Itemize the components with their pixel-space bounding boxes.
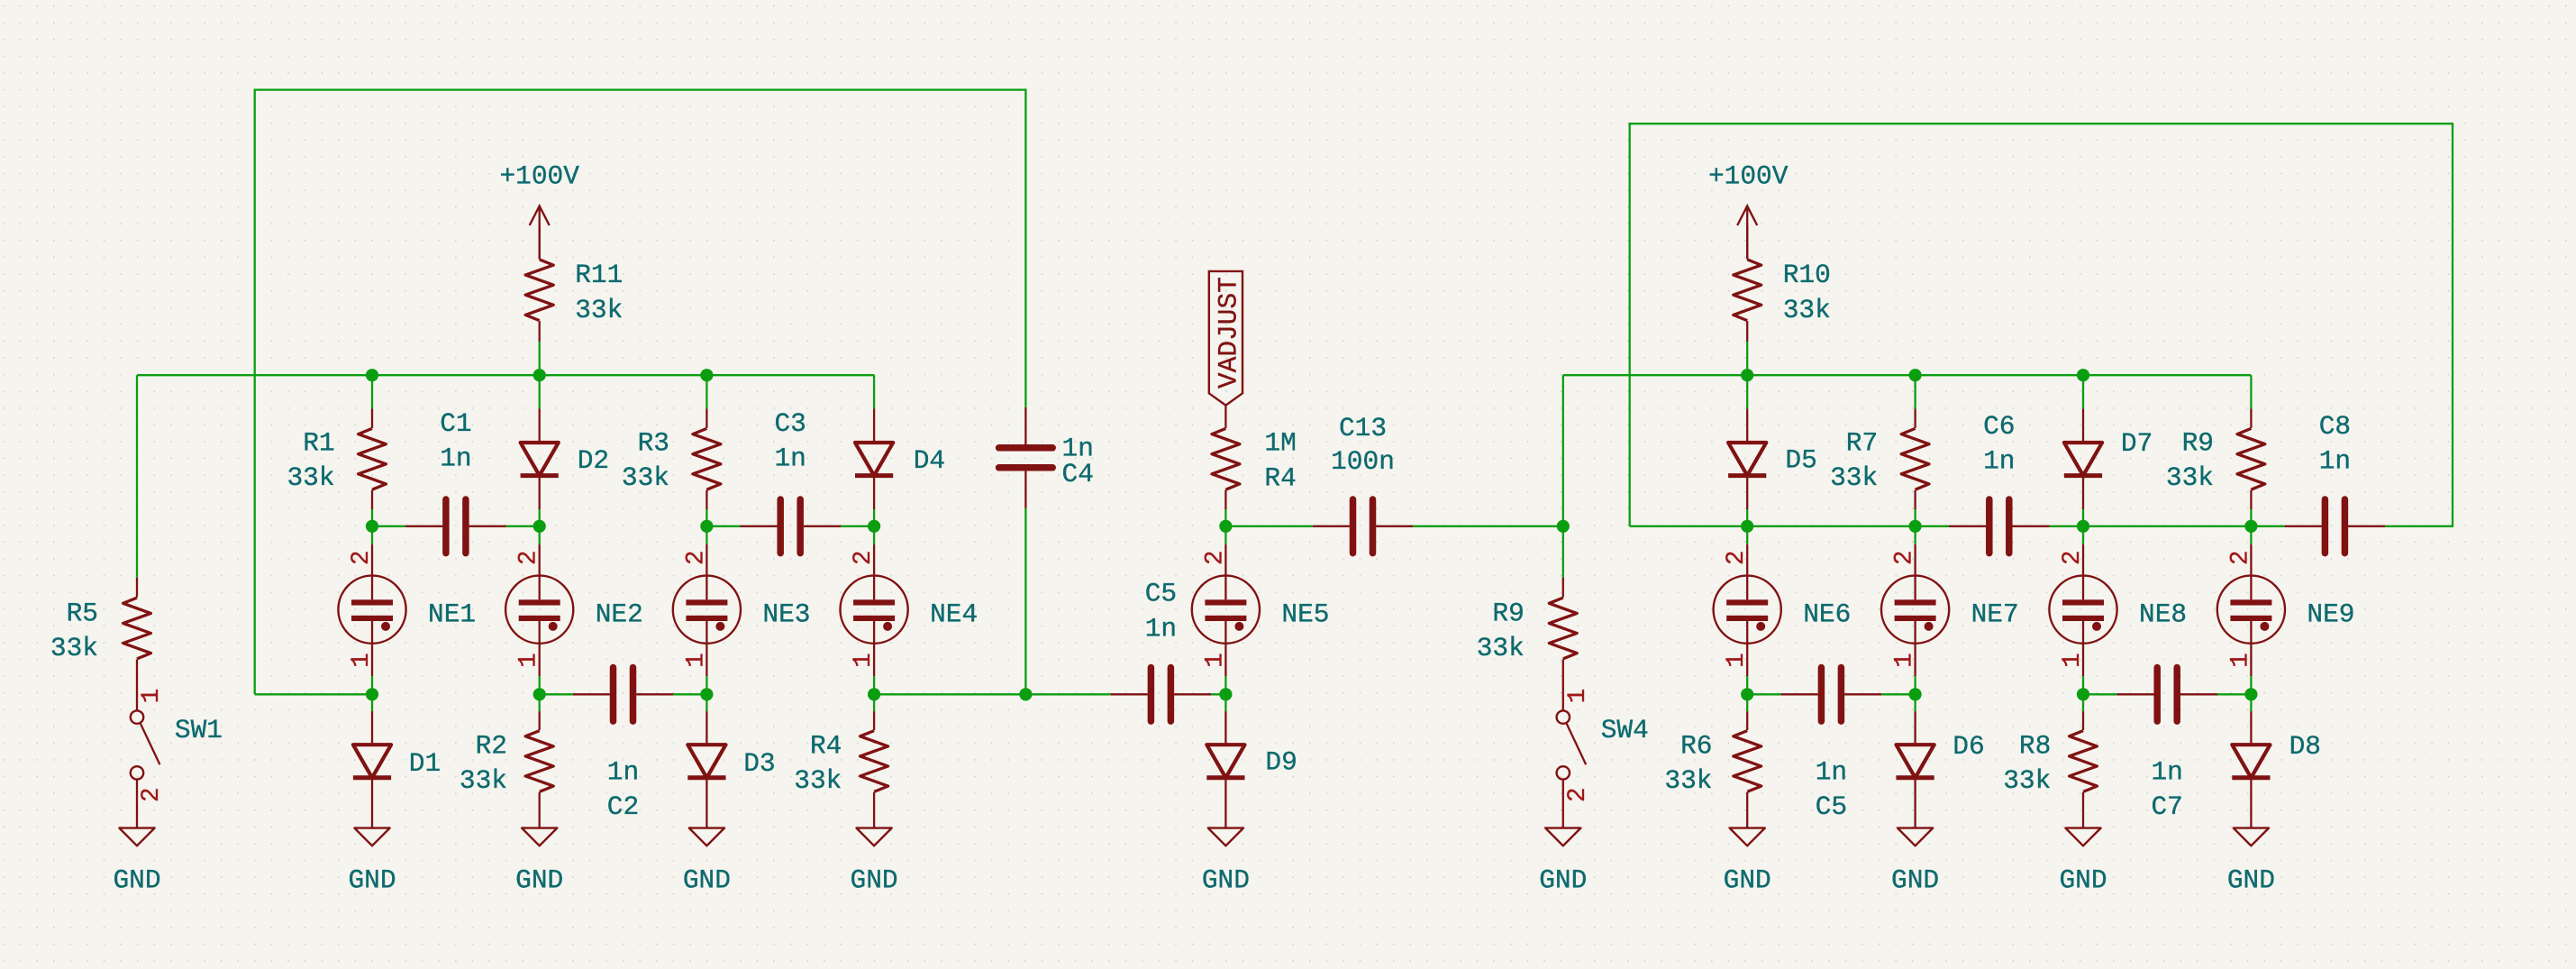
svg-text:R9: R9 [2182, 428, 2214, 459]
svg-text:+100V: +100V [1708, 161, 1789, 192]
wire bottom row NE6-C5b [1747, 693, 1780, 695]
svg-text:2: 2 [850, 550, 878, 565]
wire mid row NE5-C13 [1225, 526, 1312, 527]
diode D2 [521, 409, 610, 510]
ground R6 [1724, 828, 1771, 896]
svg-text:33k: 33k [622, 462, 669, 493]
svg-text:1n: 1n [2151, 757, 2182, 788]
junction SW4 node [1557, 520, 1570, 533]
junction NE9 grid [2244, 520, 2257, 533]
svg-text:D2: D2 [578, 445, 609, 476]
junction NE2 grid [533, 520, 546, 533]
svg-text:D5: D5 [1785, 445, 1816, 476]
junction NE2 cathode [533, 688, 546, 700]
svg-text:33k: 33k [794, 765, 842, 796]
wire mid stub above NE6 [1746, 509, 1748, 544]
wire cathode stub NE3 [705, 676, 707, 711]
capacitor C5 bottom left [1111, 579, 1212, 722]
svg-text:1: 1 [682, 653, 710, 668]
switch SW1 [131, 689, 223, 828]
wire mid row C13-SW4 node [1413, 526, 1563, 527]
svg-text:R8: R8 [2019, 731, 2051, 762]
junction bus/R7 [1909, 369, 1922, 381]
svg-text:C7: C7 [2151, 791, 2182, 822]
svg-text:SW4: SW4 [1601, 715, 1649, 745]
svg-text:GND: GND [683, 864, 731, 895]
svg-text:2: 2 [2059, 550, 2087, 565]
wire bottom row C7-NE9 [2217, 693, 2251, 695]
resistor R2 [460, 711, 553, 828]
junction NE1 grid [366, 520, 378, 533]
svg-text:D6: D6 [1952, 731, 1984, 762]
junction NE4 cathode [868, 688, 880, 700]
wire mid stub above NE7 [1914, 509, 1916, 544]
capacitor C6 [1949, 411, 2050, 553]
svg-text:2: 2 [1723, 550, 1751, 565]
diode D3 [687, 711, 775, 828]
svg-text:R11: R11 [575, 260, 623, 290]
svg-text:33k: 33k [1783, 295, 1831, 325]
svg-text:2: 2 [515, 550, 543, 565]
wire bottom row NE4-C5 [874, 693, 1111, 695]
svg-text:R5: R5 [67, 599, 98, 629]
svg-text:C4: C4 [1062, 459, 1094, 489]
wire D4 stub [873, 375, 875, 408]
wire feedback loop right (C8 to NE6 grid) [1630, 123, 2453, 526]
junction NE6 grid [1741, 520, 1753, 533]
ground SW4 [1539, 828, 1587, 896]
resistor R5 [50, 578, 151, 711]
diode D9 [1206, 711, 1297, 828]
wire bottom row feedback to NE1 [255, 693, 372, 695]
svg-text:VADJUST: VADJUST [1213, 277, 1243, 389]
svg-text:NE6: NE6 [1803, 599, 1851, 630]
junction bus/R3 [700, 369, 713, 381]
svg-text:+100V: +100V [499, 161, 579, 192]
ground D1 [348, 828, 396, 896]
svg-text:2: 2 [1891, 550, 1919, 565]
svg-text:NE1: NE1 [428, 599, 476, 630]
svg-text:C8: C8 [2319, 411, 2351, 442]
svg-text:R4: R4 [1264, 462, 1296, 493]
junction bus/R1 [366, 369, 378, 381]
resistor R9 timing [1477, 578, 1578, 711]
wire mid row NE1-C1 [372, 526, 405, 527]
ground D8 [2227, 828, 2275, 896]
svg-text:33k: 33k [287, 462, 334, 493]
diode D8 [2232, 711, 2321, 828]
junction NE7 grid [1909, 520, 1922, 533]
wire mid stub above NE8 [2082, 509, 2084, 544]
svg-text:C3: C3 [774, 408, 806, 439]
junction bus/D7 [2077, 369, 2089, 381]
neon lamp NE6 [1714, 544, 1852, 676]
ground D9 [1202, 828, 1250, 896]
ground D3 [683, 828, 731, 896]
wire anode bus right [1563, 374, 2252, 376]
svg-text:1: 1 [515, 653, 543, 668]
resistor R7 [1830, 409, 1929, 510]
svg-text:1n: 1n [2319, 446, 2351, 477]
wire cathode stub NE8 [2082, 676, 2084, 711]
junction NE7 cathode [1909, 688, 1922, 700]
wire anode bus left [137, 374, 874, 376]
svg-text:R10: R10 [1783, 260, 1831, 290]
wire mid stub above NE2 [539, 509, 541, 544]
svg-text:C5: C5 [1816, 791, 1847, 822]
svg-text:33k: 33k [1830, 462, 1878, 493]
junction C4 bottom [1019, 688, 1032, 700]
wire bottom row NE8-C7 [2083, 693, 2116, 695]
svg-text:D3: D3 [743, 748, 775, 779]
ground D6 [1891, 828, 1939, 896]
resistor R8 [2003, 711, 2097, 828]
neon lamp NE3 [673, 544, 811, 676]
neon lamp NE8 [2049, 544, 2187, 676]
svg-text:GND: GND [1202, 864, 1250, 895]
svg-text:1M: 1M [1264, 428, 1296, 459]
svg-text:33k: 33k [460, 765, 507, 796]
svg-text:1: 1 [348, 653, 376, 668]
svg-text:33k: 33k [1477, 633, 1525, 663]
resistor R10 [1734, 225, 1831, 342]
junction NE3 cathode [700, 688, 713, 700]
diode D4 [855, 409, 945, 510]
diode D5 [1728, 409, 1817, 510]
diode D6 [1897, 711, 1985, 828]
wire mid stub above NE9 [2250, 509, 2252, 544]
wire mid stub above NE3 [705, 509, 707, 544]
wire R5 drop [136, 375, 138, 578]
svg-text:GND: GND [348, 864, 396, 895]
svg-text:1n: 1n [1816, 757, 1847, 788]
wire cathode stub NE7 [1914, 676, 1916, 711]
global label VADJUST [1209, 271, 1244, 406]
svg-text:1n: 1n [1145, 613, 1177, 644]
wire mid row rect to NE6 [1630, 526, 1748, 527]
wire bottom row C5b-NE7 [1881, 693, 1915, 695]
junction NE8 grid [2077, 520, 2089, 533]
svg-text:2: 2 [348, 550, 376, 565]
svg-text:R2: R2 [476, 731, 507, 762]
svg-text:C2: C2 [607, 791, 639, 822]
wire cathode stub NE2 [539, 676, 541, 711]
svg-text:GND: GND [1539, 864, 1587, 895]
capacitor C1 [405, 408, 505, 553]
svg-text:GND: GND [1891, 864, 1939, 895]
wire R11 stub [539, 342, 541, 375]
svg-text:NE8: NE8 [2139, 599, 2187, 630]
svg-text:33k: 33k [1664, 765, 1712, 796]
svg-text:R3: R3 [638, 428, 669, 459]
svg-text:NE3: NE3 [762, 599, 810, 630]
wire SW4 node riser [1562, 375, 1564, 526]
svg-text:NE2: NE2 [596, 599, 643, 630]
wire bottom row C5-NE5 [1211, 693, 1225, 695]
ground R8 [2059, 828, 2107, 896]
power +100V right [1708, 161, 1789, 260]
wire mid stub above NE1 [371, 509, 373, 544]
svg-text:1: 1 [1564, 689, 1592, 704]
resistor R1 [287, 409, 386, 510]
svg-text:1: 1 [1723, 653, 1751, 668]
svg-text:R1: R1 [303, 428, 334, 459]
svg-text:2: 2 [1564, 787, 1592, 802]
neon lamp NE1 [338, 544, 476, 676]
resistor R4 cathode [794, 711, 887, 828]
junction bus/R11/D2 [533, 369, 546, 381]
svg-text:R4: R4 [810, 731, 842, 762]
svg-text:2: 2 [138, 787, 166, 802]
ground R2 [515, 828, 563, 896]
diode D7 [2064, 409, 2153, 510]
svg-text:33k: 33k [575, 295, 623, 325]
wire R1 stub [371, 375, 373, 408]
wire NE5 mid stubs [1224, 509, 1226, 544]
wire D7 stub [2082, 375, 2084, 408]
wire mid row C3-NE4 [841, 526, 874, 527]
svg-text:D4: D4 [914, 445, 945, 476]
resistor R9 anode [2166, 409, 2265, 510]
wire mid row NE3-C3 [706, 526, 740, 527]
svg-text:SW1: SW1 [175, 715, 223, 745]
wire mid row NE8-NE9 [2083, 526, 2251, 527]
wire mid row NE6-NE7 [1747, 526, 1915, 527]
svg-text:100n: 100n [1331, 446, 1395, 477]
resistor R11 [525, 225, 623, 342]
svg-text:33k: 33k [2166, 462, 2214, 493]
wire D5 stub [1746, 375, 1748, 408]
wire mid row NE9-C8 [2251, 526, 2284, 527]
neon lamp NE7 [1881, 544, 2019, 676]
svg-text:C13: C13 [1339, 413, 1387, 443]
neon lamp NE4 [841, 544, 979, 676]
resistor R6 [1664, 711, 1761, 828]
junction NE4 grid [868, 520, 880, 533]
junction bus/R10/D5 [1741, 369, 1753, 381]
svg-text:D1: D1 [409, 748, 441, 779]
capacitor C5 right [1781, 668, 1882, 823]
wire C4 bottom drop [1024, 508, 1026, 695]
svg-text:D8: D8 [2289, 731, 2321, 762]
svg-text:GND: GND [515, 864, 563, 895]
svg-text:1n: 1n [1983, 446, 2015, 477]
resistor R4 1M [1212, 406, 1297, 509]
svg-text:C6: C6 [1983, 411, 2015, 442]
wire mid row C6-NE8 [2050, 526, 2083, 527]
svg-text:NE7: NE7 [1971, 599, 2019, 630]
svg-text:R9: R9 [1492, 599, 1524, 629]
switch SW4 [1557, 689, 1649, 828]
capacitor C4 [999, 407, 1094, 508]
junction NE3 grid [700, 520, 713, 533]
diode D1 [353, 711, 441, 828]
wire cathode stub NE1 [371, 676, 373, 711]
svg-text:33k: 33k [50, 633, 98, 663]
wire R9 drop [1562, 526, 1564, 578]
wire R9b stub [2250, 375, 2252, 408]
capacitor C7 [2116, 668, 2217, 823]
resistor R3 [622, 409, 721, 510]
svg-text:1: 1 [1891, 653, 1919, 668]
neon lamp NE5 [1192, 544, 1330, 676]
svg-text:NE9: NE9 [2307, 599, 2354, 630]
capacitor C13 [1313, 413, 1414, 553]
wire NE5 cathode stub [1224, 676, 1226, 711]
neon lamp NE9 [2217, 544, 2355, 676]
junction NE1 cathode [366, 688, 378, 700]
ground SW1 [113, 828, 160, 896]
svg-text:GND: GND [2227, 864, 2275, 895]
svg-text:GND: GND [113, 864, 160, 895]
svg-text:1: 1 [138, 689, 166, 704]
svg-text:1n: 1n [440, 443, 471, 474]
wire feedback loop left (C4 top to NE1 cathode) [255, 90, 1026, 695]
wire cathode stub NE6 [1746, 676, 1748, 711]
wire cathode stub NE9 [2250, 676, 2252, 711]
capacitor C3 [741, 408, 842, 553]
wire R7 stub [1914, 375, 1916, 408]
svg-text:1: 1 [2059, 653, 2087, 668]
wire mid row C1-NE2 [506, 526, 540, 527]
svg-text:R7: R7 [1846, 428, 1878, 459]
svg-text:GND: GND [851, 864, 898, 895]
svg-text:1n: 1n [774, 443, 806, 474]
svg-text:D7: D7 [2121, 428, 2153, 459]
svg-text:2: 2 [2226, 550, 2254, 565]
junction NE5 grid [1219, 520, 1232, 533]
svg-text:D9: D9 [1265, 747, 1297, 778]
capacitor C8 [2285, 411, 2386, 553]
svg-text:C1: C1 [440, 408, 471, 439]
svg-text:C5: C5 [1145, 579, 1177, 609]
junction NE5 cathode [1219, 688, 1232, 700]
junction NE6 cathode [1741, 688, 1753, 700]
svg-text:1n: 1n [607, 757, 639, 788]
svg-text:33k: 33k [2003, 765, 2051, 796]
neon lamp NE2 [505, 544, 643, 676]
svg-text:R6: R6 [1680, 731, 1712, 762]
svg-text:2: 2 [682, 550, 710, 565]
svg-text:GND: GND [1724, 864, 1771, 895]
svg-text:2: 2 [1201, 550, 1229, 565]
wire D2 stub [539, 375, 541, 408]
svg-text:NE5: NE5 [1281, 599, 1329, 630]
wire mid row NE7-C6 [1916, 526, 1949, 527]
svg-text:1: 1 [850, 653, 878, 668]
wire bottom row C2-NE3 [673, 693, 706, 695]
svg-text:NE4: NE4 [930, 599, 978, 630]
wire mid stub above NE4 [873, 509, 875, 544]
svg-text:1: 1 [1201, 653, 1229, 668]
wire bottom row NE2-C2 [540, 693, 573, 695]
power +100V left [499, 161, 579, 260]
capacitor C2 [573, 668, 674, 823]
svg-text:GND: GND [2059, 864, 2107, 895]
wire R10 stub [1746, 342, 1748, 375]
junction NE8 cathode [2077, 688, 2089, 700]
junction NE9 cathode [2244, 688, 2257, 700]
ground R4 [851, 828, 898, 896]
wire R3 stub [705, 375, 707, 408]
svg-text:1: 1 [2226, 653, 2254, 668]
wire cathode stub NE4 [873, 676, 875, 711]
